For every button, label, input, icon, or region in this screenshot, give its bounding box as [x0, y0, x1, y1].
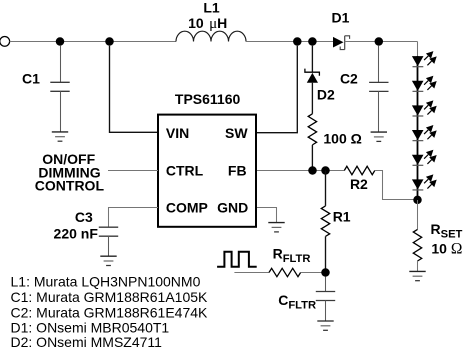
resistor RFLTR — [269, 268, 301, 276]
ground (C3) — [100, 256, 116, 265]
label ON/OFF DIMMING CONTROL — [35, 151, 105, 193]
wire: LED column — [417, 56, 419, 200]
diode D2 (zener) — [305, 69, 320, 83]
svg-text:C3: C3 — [75, 209, 93, 225]
wire: RFLTR to node — [301, 272, 326, 274]
LED 3 — [412, 100, 437, 116]
node: FB junction dot 1 — [308, 166, 317, 175]
wire: CTRL input — [108, 170, 158, 172]
wire: LED column top lead — [417, 42, 419, 57]
svg-text:100 Ω: 100 Ω — [323, 131, 361, 147]
node: junction dot B — [105, 37, 114, 46]
capacitor C1 — [50, 46, 69, 132]
node: filter junction dot — [321, 268, 330, 277]
wire: R2 to LED cathode node — [375, 171, 418, 200]
PWM waveform symbol — [217, 252, 257, 267]
ground (C1) — [52, 132, 68, 141]
node: junction dot E (C2) — [375, 37, 384, 46]
wire: top rail from terminal to inductor — [10, 41, 176, 43]
node: junction dot C (SW) — [293, 37, 302, 46]
node: junction dot A — [56, 37, 65, 46]
ground (CFLTR) — [317, 321, 333, 330]
LED 5 — [412, 150, 437, 166]
wire: R1 upper lead — [325, 171, 327, 206]
diode D1 (schottky) — [333, 36, 350, 50]
capacitor C3 — [99, 227, 118, 256]
ground (RSET) — [409, 271, 425, 280]
wire: R1 lower lead — [325, 236, 327, 272]
svg-text:TPS61160: TPS61160 — [175, 91, 241, 107]
resistor R2 — [344, 166, 374, 174]
resistor R1 — [321, 206, 329, 236]
svg-text:C2: C2 — [340, 71, 358, 87]
wire: D2 to resistor — [311, 83, 313, 114]
wire: COMP to C3 — [109, 208, 159, 228]
node: FB junction dot 2 — [321, 166, 330, 175]
LED 2 — [412, 76, 437, 92]
svg-text:COMP: COMP — [166, 199, 208, 215]
wire: RSET to ground — [417, 261, 419, 271]
IC U1 TPS61160 — [158, 115, 256, 227]
svg-text:D1: D1 — [332, 9, 350, 25]
capacitor CFLTR — [316, 277, 335, 322]
svg-text:VIN: VIN — [166, 125, 189, 141]
svg-text:SW: SW — [225, 125, 248, 141]
resistor RSET — [413, 229, 421, 261]
LED 6 — [412, 174, 437, 190]
ground (C2) — [371, 132, 387, 141]
svg-text:GND: GND — [217, 199, 248, 215]
input terminal — [0, 37, 10, 47]
wire: inductor to D1 anode — [246, 41, 333, 43]
wire: D1 cathode to LED column corner — [345, 41, 418, 43]
resistor 100 ohm — [308, 114, 316, 145]
LED 1 — [412, 51, 437, 67]
wire: PWM input to RFLTR — [234, 272, 269, 274]
wire: FB pin to R2 — [257, 170, 344, 172]
ground (GND pin) — [268, 223, 284, 232]
svg-text:R2: R2 — [350, 176, 368, 192]
svg-text:L1: L1 — [203, 0, 220, 15]
inductor L1 — [176, 31, 246, 41]
svg-text:D2: D2 — [317, 87, 335, 103]
svg-text:D2: ONsemi MMSZ4711: D2: ONsemi MMSZ4711 — [11, 334, 163, 348]
svg-text:C1: C1 — [22, 71, 40, 87]
node: LED cathode junction — [413, 196, 422, 205]
svg-text:220 nF: 220 nF — [54, 225, 99, 241]
LED 4 — [412, 125, 437, 141]
node: junction dot D (D2 branch) — [308, 37, 317, 46]
wire: GND pin to ground — [257, 208, 277, 223]
svg-text:C2: Murata GRM188R61E474K: C2: Murata GRM188R61E474K — [11, 304, 209, 320]
svg-text:CONTROL: CONTROL — [35, 177, 105, 193]
wire: to RSET — [417, 200, 419, 229]
capacitor C2 — [369, 46, 388, 132]
wire: resistor to FB node — [311, 145, 313, 171]
svg-text:L1: Murata LQH3NPN100NM0: L1: Murata LQH3NPN100NM0 — [11, 274, 201, 290]
wire: VIN drop — [110, 46, 159, 133]
svg-text:R1: R1 — [333, 209, 351, 225]
svg-text:C1: Murata GRM188R61A105K: C1: Murata GRM188R61A105K — [11, 289, 209, 305]
wire: SW riser — [257, 46, 297, 133]
svg-text:FB: FB — [228, 162, 247, 178]
svg-text:CTRL: CTRL — [166, 162, 204, 178]
wire: D2 branch from top rail — [311, 46, 313, 72]
svg-text:10 Ω: 10 Ω — [431, 241, 462, 258]
